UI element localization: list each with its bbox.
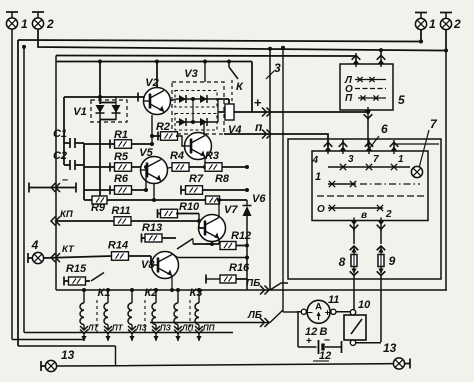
svg-text:ПЗ: ПЗ <box>160 324 171 333</box>
svg-text:7: 7 <box>430 117 438 131</box>
svg-text:А: А <box>315 302 322 313</box>
svg-text:П: П <box>345 93 353 104</box>
svg-text:4: 4 <box>31 238 39 252</box>
svg-text:2: 2 <box>453 17 461 31</box>
svg-text:4: 4 <box>311 155 318 166</box>
svg-text:11: 11 <box>328 294 339 306</box>
svg-text:R3: R3 <box>205 150 219 162</box>
svg-text:1: 1 <box>398 154 404 165</box>
svg-text:R10: R10 <box>179 201 200 213</box>
svg-text:ЛЗ: ЛЗ <box>135 324 147 333</box>
svg-text:13: 13 <box>383 341 397 355</box>
svg-text:ЛБ: ЛБ <box>247 310 262 321</box>
svg-text:R14: R14 <box>108 240 128 252</box>
svg-text:9: 9 <box>389 254 396 268</box>
svg-text:п: п <box>255 120 263 134</box>
svg-text:ЛТ: ЛТ <box>87 324 99 333</box>
svg-text:R7: R7 <box>189 173 204 185</box>
svg-text:10: 10 <box>358 299 371 311</box>
svg-text:+: + <box>306 336 312 347</box>
svg-text:3: 3 <box>274 61 281 75</box>
svg-text:2: 2 <box>385 209 392 220</box>
svg-text:–: – <box>62 174 68 186</box>
svg-text:8: 8 <box>339 255 346 269</box>
svg-text:1: 1 <box>429 17 436 31</box>
svg-text:3: 3 <box>348 154 354 165</box>
svg-text:1: 1 <box>315 171 321 183</box>
svg-text:R9: R9 <box>91 202 106 214</box>
svg-text:в: в <box>361 210 367 221</box>
svg-text:ПП: ПП <box>203 324 215 333</box>
svg-text:V7: V7 <box>224 204 238 216</box>
svg-text:12: 12 <box>319 350 331 362</box>
svg-text:C2: C2 <box>53 150 67 162</box>
svg-text:+: + <box>254 95 262 110</box>
svg-text:R8: R8 <box>215 173 230 185</box>
svg-text:КТ: КТ <box>62 244 75 255</box>
svg-text:R13: R13 <box>142 222 162 234</box>
svg-text:К2: К2 <box>145 287 158 299</box>
svg-text:6: 6 <box>381 122 388 136</box>
svg-text:+: + <box>325 308 331 319</box>
svg-text:R15: R15 <box>66 263 87 275</box>
svg-text:R4: R4 <box>170 150 184 162</box>
svg-text:5: 5 <box>398 93 405 107</box>
svg-text:К1: К1 <box>98 287 111 299</box>
svg-text:V6: V6 <box>252 193 266 205</box>
svg-text:R6: R6 <box>114 173 129 185</box>
svg-text:–: – <box>324 334 330 346</box>
svg-text:R5: R5 <box>114 151 129 163</box>
svg-text:V8: V8 <box>141 259 155 271</box>
svg-text:–: – <box>307 307 313 318</box>
svg-text:ПТ: ПТ <box>112 324 124 333</box>
svg-text:V3: V3 <box>184 68 197 80</box>
svg-text:R2: R2 <box>156 121 170 133</box>
svg-text:ПБ: ПБ <box>246 278 260 289</box>
svg-text:К: К <box>236 81 244 93</box>
svg-text:R11: R11 <box>111 205 130 217</box>
svg-text:13: 13 <box>61 348 75 362</box>
svg-text:О: О <box>317 204 325 215</box>
svg-text:C1: C1 <box>53 128 67 140</box>
svg-text:КП: КП <box>60 209 73 220</box>
svg-text:К3: К3 <box>190 287 203 299</box>
svg-text:ЛП: ЛП <box>181 324 193 333</box>
svg-text:V1: V1 <box>73 106 86 118</box>
svg-text:R1: R1 <box>114 129 128 141</box>
svg-text:2: 2 <box>46 17 54 31</box>
svg-text:1: 1 <box>21 17 28 31</box>
svg-text:R12: R12 <box>231 230 251 242</box>
svg-text:7: 7 <box>373 154 379 165</box>
